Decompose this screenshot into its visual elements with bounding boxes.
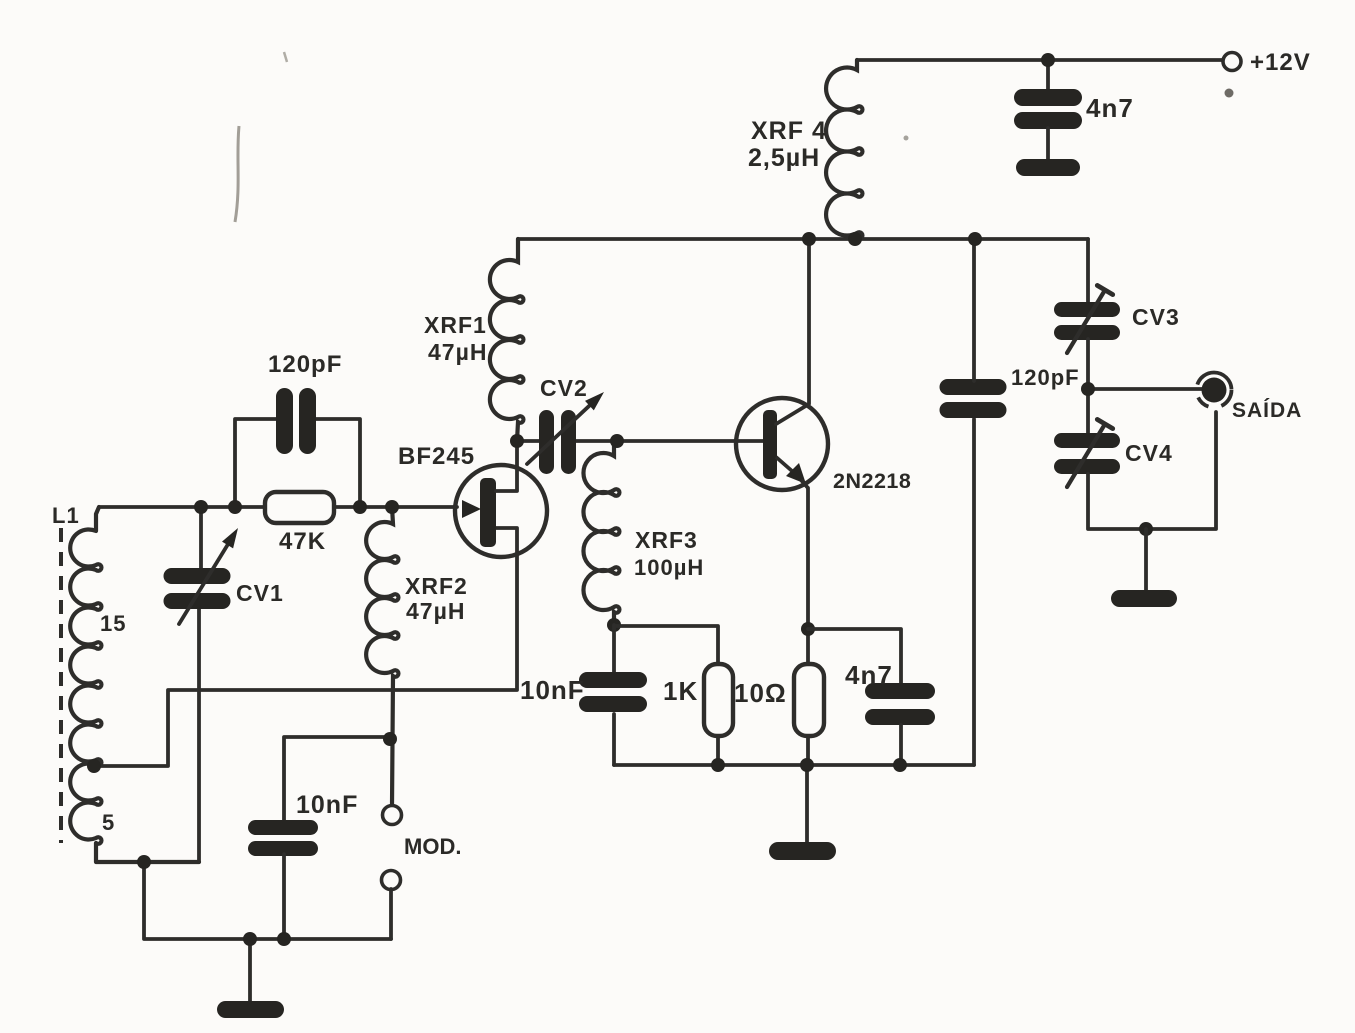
wire CV2 left lead (517, 439, 540, 443)
wire left ground stem (248, 939, 252, 1001)
svg-text:10Ω: 10Ω (734, 678, 787, 708)
trimmer arrow of CV4 (1067, 419, 1113, 487)
svg-text:2N2218: 2N2218 (833, 469, 911, 493)
svg-text:1K: 1K (663, 676, 698, 706)
node L1 tap (87, 759, 101, 773)
svg-text:XRF3: XRF3 (635, 527, 698, 553)
wire 4n7 bypass bottom lead (899, 725, 903, 765)
trimmer capacitor CV4 (1054, 433, 1120, 474)
wire 4n7 bottom lead (1046, 128, 1050, 161)
svg-text:120pF: 120pF (268, 351, 342, 378)
svg-text:4n7: 4n7 (845, 660, 893, 690)
transistor Q1 BF245 (JFET) body (455, 465, 547, 557)
node emitter junction (801, 622, 815, 636)
svg-text:CV1: CV1 (236, 580, 284, 606)
wire source line (L1 tap to JFET source) (95, 528, 517, 766)
wire 120pF right bracket (315, 419, 360, 507)
capacitor 120pF (output side) (940, 379, 1007, 418)
ground bar (emitter rail) (769, 842, 836, 860)
resistor 47K (265, 492, 334, 523)
svg-text:15: 15 (100, 611, 126, 636)
wire 2N2218 collector lead (776, 239, 809, 424)
wire right ground stem (1144, 529, 1148, 591)
node 10nF mod bottom (277, 932, 291, 946)
node 4n7 supply (1041, 53, 1055, 67)
ground bar (output) (1111, 590, 1177, 607)
wire MOD bottom to rail (389, 889, 393, 939)
svg-text:XRF 4: XRF 4 (751, 117, 827, 145)
node drain-CV2-XRF1 (510, 434, 524, 448)
scan artifact faint stroke (235, 126, 239, 222)
wire +12V supply rail (857, 58, 1222, 62)
node 120pF left (228, 500, 242, 514)
wire oscillator gate line (99, 505, 457, 509)
inductor XRF1 47uH (490, 239, 524, 441)
capacitor 10nF (middle) (579, 672, 647, 712)
wire mid ground stem (805, 765, 809, 845)
wire CV3 bottom lead (1086, 339, 1090, 389)
svg-text:XRF2: XRF2 (405, 573, 468, 599)
ground bar below 4n7 (1016, 159, 1080, 176)
variable capacitor CV1 (164, 568, 231, 609)
wire 10 ohm bottom lead (806, 736, 810, 765)
node ground left (243, 932, 257, 946)
capacitor 4n7 (decoupling, top right) (1014, 89, 1082, 129)
wire bottom left rail (144, 862, 391, 939)
wire BF245 drain lead (496, 441, 517, 491)
svg-text:BF245: BF245 (398, 443, 475, 470)
BF245 gate arrow (462, 500, 481, 518)
trimmer capacitor CV3 (1054, 302, 1120, 340)
wire right vertical to 120pF (972, 419, 976, 765)
svg-text:120pF: 120pF (1011, 365, 1080, 390)
capacitor 120pF (feedback, top left) (276, 388, 316, 454)
node 10nF-mod / XRF2 line (383, 732, 397, 746)
wire CV1 bottom lead (197, 609, 201, 862)
wire CV4 top lead (1086, 389, 1090, 435)
trimmer arrow of CV3 (1067, 285, 1113, 353)
svg-text:47µH: 47µH (406, 598, 465, 624)
svg-text:47K: 47K (279, 528, 326, 555)
variable capacitor CV2 (539, 410, 576, 474)
inductor XRF2 47uH (366, 507, 398, 806)
inductor XRF3 100uH (583, 441, 619, 625)
dashed core line of L1 (59, 528, 63, 843)
node emitter rail ground (800, 758, 814, 772)
svg-text:XRF1: XRF1 (424, 312, 487, 338)
wire 120pF left bracket (235, 419, 277, 507)
node collector rail (802, 232, 816, 246)
svg-text:MOD.: MOD. (404, 834, 461, 859)
svg-text:+12V: +12V (1250, 49, 1311, 76)
BF245 channel bar (480, 478, 496, 547)
svg-text:CV2: CV2 (540, 375, 588, 401)
node L1 bottom (137, 855, 151, 869)
wire bottom rail (emitter ground rail) (614, 763, 974, 767)
2N2218 emitter with arrow (776, 457, 808, 488)
wire CV3 top lead (1086, 239, 1090, 304)
svg-text:4n7: 4n7 (1086, 93, 1134, 123)
wire 10nF source-bypass bottom lead (612, 714, 616, 765)
svg-text:L1: L1 (52, 503, 80, 528)
svg-text:5: 5 (102, 810, 115, 835)
wire 10nF source-bypass top lead (612, 625, 616, 674)
node SAIDA junction (1081, 382, 1095, 396)
wire XRF3 junction to 1K (614, 626, 718, 664)
wire 10nF mod bottom lead (282, 854, 286, 939)
wire CV1 top lead (199, 507, 203, 570)
scan artifact speck 3 (284, 52, 287, 62)
wire 2N2218 emitter lead (806, 488, 810, 664)
node XRF2 top / gate (385, 500, 399, 514)
svg-text:2,5µH: 2,5µH (748, 144, 820, 172)
node 120pF output top (968, 232, 982, 246)
terminal +12V (1223, 53, 1241, 71)
arrow of CV1 (179, 528, 238, 624)
node CV1 top (194, 500, 208, 514)
wire emitter to 4n7 bracket (808, 629, 901, 685)
wire to SAIDA (1088, 387, 1203, 391)
svg-text:10nF: 10nF (520, 675, 585, 705)
wire 1K bottom lead (716, 736, 720, 765)
node CV4 ground junction (1139, 522, 1153, 536)
node XRF4 bottom (848, 232, 862, 246)
arrow of CV2 (527, 392, 604, 464)
node 1K bottom (711, 758, 725, 772)
inductor XRF4 2,5uH (826, 60, 862, 239)
node 4n7 bypass bottom (893, 758, 907, 772)
wire main top rail (drain/collector supply) (518, 237, 1088, 241)
node CV2-XRF3-base (610, 434, 624, 448)
capacitor 4n7 (emitter bypass) (865, 683, 935, 725)
resistor 10 ohm (emitter) (794, 664, 824, 736)
scan artifact speck 2 (904, 136, 909, 141)
inductor L1 (tapped coil) (70, 507, 199, 862)
terminal MOD bottom (382, 871, 401, 890)
svg-text:CV3: CV3 (1132, 304, 1180, 330)
svg-text:SAÍDA: SAÍDA (1232, 399, 1302, 422)
node 120pF right (353, 500, 367, 514)
wire 10nF mod bracket (284, 737, 390, 822)
wire CV2 right lead / base wire (572, 439, 764, 443)
ground bar (left) (217, 1001, 284, 1018)
capacitor 10nF (modulation) (248, 820, 318, 856)
svg-text:10nF: 10nF (296, 791, 358, 819)
svg-text:CV4: CV4 (1125, 440, 1173, 466)
svg-text:100µH: 100µH (634, 555, 704, 580)
resistor 1K (704, 664, 733, 736)
terminal MOD top (383, 806, 402, 825)
wire 4n7 top lead (1046, 60, 1050, 91)
2N2218 base bar (763, 410, 777, 479)
node XRF3 bottom junction (607, 618, 621, 632)
wire CV4 bottom lead (1088, 412, 1216, 529)
transistor Q2 2N2218 body (736, 398, 828, 490)
svg-text:47µH: 47µH (428, 339, 487, 365)
wire 120pF output top lead (972, 239, 976, 381)
output connector SAIDA (1197, 373, 1232, 408)
scan artifact speck (1225, 89, 1234, 98)
